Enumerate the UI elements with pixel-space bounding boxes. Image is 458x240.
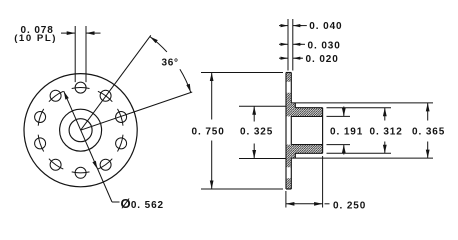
svg-text:0. 750: 0. 750 xyxy=(192,127,225,138)
svg-text:(10 PL): (10 PL) xyxy=(14,33,57,44)
svg-text:0. 191: 0. 191 xyxy=(330,127,363,138)
svg-text:36°: 36° xyxy=(162,57,179,68)
svg-text:0. 312: 0. 312 xyxy=(370,127,403,138)
svg-text:0. 030: 0. 030 xyxy=(308,40,341,51)
svg-text:0. 020: 0. 020 xyxy=(306,54,339,65)
svg-text:0. 040: 0. 040 xyxy=(309,21,342,32)
svg-text:0. 325: 0. 325 xyxy=(240,127,273,138)
svg-text:0. 250: 0. 250 xyxy=(333,200,366,211)
svg-text:0. 365: 0. 365 xyxy=(412,127,445,138)
